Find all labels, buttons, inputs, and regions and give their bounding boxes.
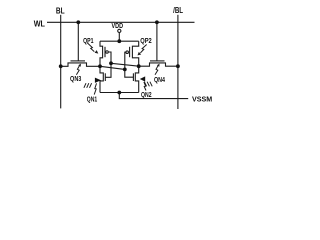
svg-text:WL: WL (34, 20, 45, 29)
svg-text:QN3: QN3 (70, 76, 81, 83)
svg-text:VDD: VDD (112, 23, 124, 30)
svg-text:QP2: QP2 (140, 38, 152, 45)
svg-text:QN2: QN2 (141, 92, 152, 99)
svg-text:/BL: /BL (173, 6, 183, 15)
svg-text:VSSM: VSSM (192, 94, 212, 103)
svg-text:QN4: QN4 (154, 77, 165, 84)
svg-text:QN1: QN1 (87, 97, 98, 104)
svg-text:BL: BL (56, 7, 65, 16)
svg-text:QP1: QP1 (83, 38, 94, 45)
